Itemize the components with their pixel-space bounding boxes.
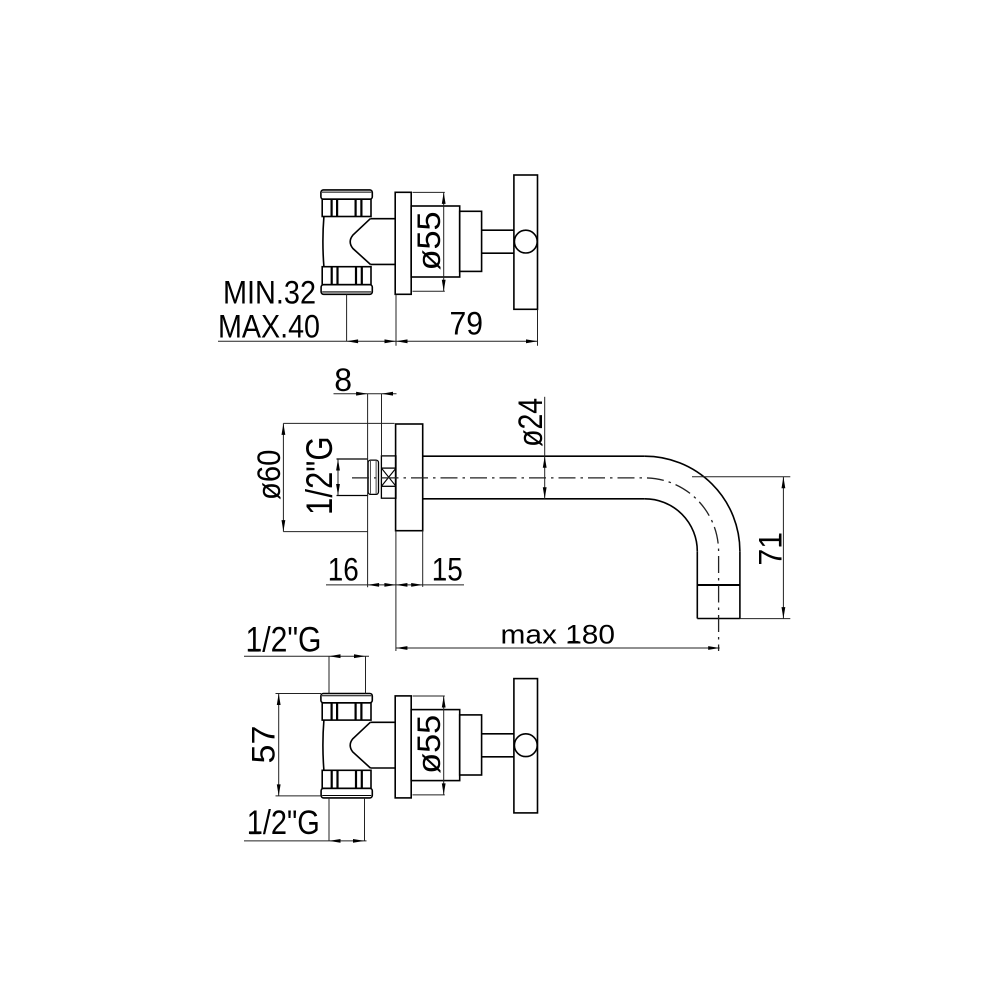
dim 15 arrows [396,583,408,587]
dim 71: extension lines [692,476,790,478]
nipple collar [368,460,378,494]
dim o55 bottom arrows [442,696,446,708]
dim 1/2G bottom arrows [329,839,341,843]
label 71 [752,532,788,566]
spout tube bottom [423,498,645,500]
svg-text:15: 15 [432,551,463,587]
dim o60 arrows [282,423,286,435]
dim 16 15: dimension line [326,584,464,586]
svg-text:1/2"G: 1/2"G [299,436,340,515]
dim 8 arrows (outside, pointing inward) [356,392,368,396]
svg-text:8: 8 [334,362,352,398]
dim MIN32 MAX40 + 79: dimension line [218,340,538,342]
svg-text:ø24: ø24 [512,398,550,447]
wall box [381,456,396,498]
svg-text:1/2"G: 1/2"G [247,804,320,842]
dim MIN32 MAX40: extension lines [346,295,348,342]
dim max180: dimension line [396,647,720,649]
dim 71 arrows [782,477,786,489]
dim 57: dimension line [278,694,280,796]
spout drop outer [739,551,741,618]
dim 1/2G bottom: extension lines [328,798,330,841]
aerator joint [697,584,740,586]
spout drop inner [696,551,698,618]
dim 57 arrows [277,694,281,706]
wall box cross [381,468,396,486]
svg-text:16: 16 [328,551,359,587]
spout inner bend [645,499,698,552]
wall flange [396,424,423,531]
dim 16 15: extension lines [395,531,397,651]
dim o55 bottom: extension lines [413,695,445,697]
dim 8: dimension line [334,393,397,395]
spout mouth [697,618,740,620]
svg-text:1/2"G: 1/2"G [246,620,322,660]
svg-text:MAX.40: MAX.40 [218,308,320,344]
svg-text:57: 57 [246,726,282,764]
dim o55 top: extension lines [413,191,445,193]
dim o24: dimension line [544,397,546,499]
dim 57: extension lines [276,693,322,695]
dim o55 top: dimension line [443,192,445,291]
dim 1/2G middle arrows [336,459,340,471]
dim o55 bottom: dimension line [443,696,445,795]
dim 79 arrows [396,339,408,343]
svg-text:max 180: max 180 [501,619,616,649]
dim 1/2G top arrows [329,654,341,658]
dim o60: dimension line [282,423,284,531]
dim 71: dimension line [782,477,784,619]
spout tube top [423,455,645,457]
svg-text:ø55: ø55 [411,715,447,774]
label 1/2G middle [299,436,340,515]
dim o55 top arrows [442,192,446,204]
dim 1/2G middle: dimension line [337,459,339,496]
supply nipple bottom [337,495,369,497]
dim 8: extension lines [367,394,369,588]
svg-text:71: 71 [752,532,788,566]
spout centerline [352,478,719,651]
svg-text:79: 79 [450,305,484,341]
dim MIN/MAX arrows [347,339,359,343]
svg-text:ø55: ø55 [411,211,447,270]
dim 1/2G top of lower valve: dimension line [244,655,369,657]
dim 1/2G bottom of lower valve: dimension line [244,840,367,842]
svg-text:MIN.32: MIN.32 [223,274,316,310]
dim 16 arrows [368,583,380,587]
supply nipple top [337,458,369,460]
dim max180 arrows [396,646,408,650]
arrowheads [277,192,786,842]
spout outer bend [645,456,740,551]
dim o60: extension lines [283,422,394,424]
svg-text:ø60: ø60 [251,450,287,501]
dim o24 arrows [543,456,547,468]
dim 1/2G top: extension lines [328,656,330,693]
